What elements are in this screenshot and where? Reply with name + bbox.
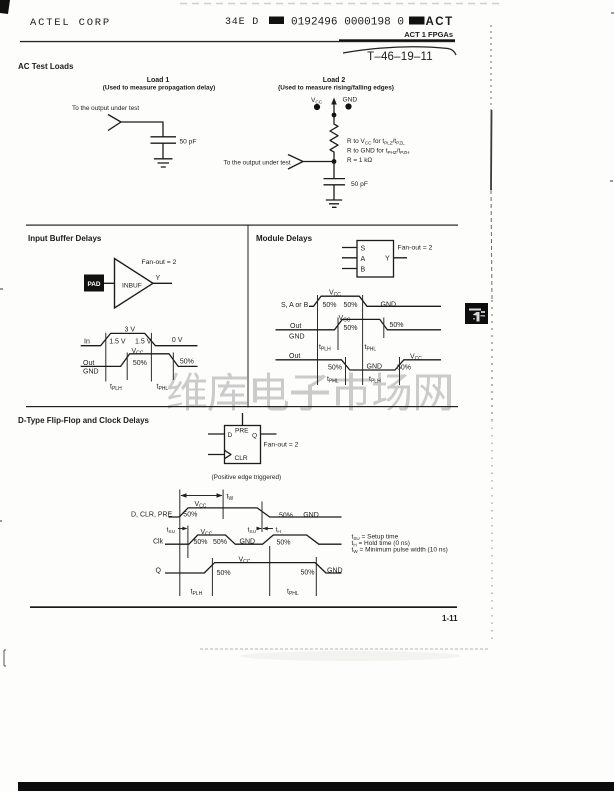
svg-text:50%: 50% — [133, 360, 147, 367]
svg-text:50%: 50% — [217, 570, 231, 577]
svg-text:50%: 50% — [279, 513, 293, 520]
svg-text:Out: Out — [289, 353, 300, 360]
svg-text:50%: 50% — [344, 325, 358, 332]
svg-text:34E D: 34E D — [225, 17, 259, 28]
svg-text:Y: Y — [156, 275, 161, 282]
svg-text:3 V: 3 V — [125, 327, 136, 334]
svg-text:Input Buffer Delays: Input Buffer Delays — [28, 234, 102, 243]
svg-text:50%: 50% — [344, 302, 358, 309]
svg-text:tPLH: tPLH — [319, 344, 331, 353]
svg-text:1-11: 1-11 — [442, 614, 458, 623]
svg-text:0192496 0000198 0: 0192496 0000198 0 — [291, 17, 404, 29]
svg-text:S, A or B: S, A or B — [281, 302, 309, 309]
svg-text:VCC: VCC — [239, 557, 251, 566]
svg-text:50%: 50% — [301, 570, 315, 577]
svg-text:T–46–19–11: T–46–19–11 — [367, 51, 433, 63]
svg-text:B: B — [361, 267, 366, 274]
svg-text:VCC: VCC — [311, 97, 323, 105]
svg-text:GND: GND — [367, 363, 383, 370]
svg-text:Y: Y — [385, 256, 390, 263]
svg-text:tPLH: tPLH — [110, 384, 122, 393]
svg-text:VCC: VCC — [132, 348, 144, 357]
svg-text:PRE: PRE — [235, 428, 249, 435]
svg-text:50%: 50% — [213, 539, 227, 546]
svg-text:50%: 50% — [194, 539, 208, 546]
svg-text:R to GND for tPHZ/tPZH: R to GND for tPHZ/tPZH — [347, 148, 409, 155]
svg-text:tPHL: tPHL — [365, 344, 377, 353]
svg-text:CLR: CLR — [235, 455, 248, 462]
svg-text:GND: GND — [303, 512, 319, 519]
svg-text:tSU: tSU — [248, 527, 257, 535]
svg-text:S: S — [361, 246, 366, 253]
svg-text:D: D — [228, 432, 233, 439]
svg-text:Q: Q — [252, 433, 257, 440]
svg-text:INBUF: INBUF — [122, 283, 142, 290]
svg-text:D-Type Flip-Flop and Clock Del: D-Type Flip-Flop and Clock Delays — [18, 416, 150, 425]
svg-text:(Used to measure propagation d: (Used to measure propagation delay) — [103, 85, 216, 92]
svg-text:R = 1 kΩ: R = 1 kΩ — [347, 157, 372, 164]
svg-text:Fan-out = 2: Fan-out = 2 — [264, 442, 299, 449]
svg-text:50%: 50% — [390, 322, 404, 329]
svg-text:50%: 50% — [328, 364, 342, 371]
svg-text:50%: 50% — [323, 302, 337, 309]
svg-text:Load 1: Load 1 — [147, 77, 170, 84]
svg-text:Clk: Clk — [153, 539, 164, 546]
svg-text:0 V: 0 V — [172, 337, 183, 344]
svg-text:(Positive edge triggered): (Positive edge triggered) — [212, 474, 282, 481]
svg-text:VCC: VCC — [201, 529, 213, 538]
svg-text:ACT 1 FPGAs: ACT 1 FPGAs — [404, 30, 453, 39]
svg-text:50 pF: 50 pF — [180, 139, 197, 146]
svg-text:PAD: PAD — [87, 281, 100, 288]
svg-text:Fan-out = 2: Fan-out = 2 — [398, 245, 433, 252]
svg-text:50%: 50% — [183, 512, 197, 519]
svg-text:tSU: tSU — [167, 527, 176, 535]
svg-text:R to VCC for tPLZ/tPZL: R to VCC for tPLZ/tPZL — [347, 138, 405, 145]
svg-text:GND: GND — [289, 334, 305, 341]
svg-text:1.5 V: 1.5 V — [135, 339, 152, 346]
svg-text:1.5 V: 1.5 V — [109, 339, 126, 346]
svg-text:50 pF: 50 pF — [351, 181, 368, 188]
svg-text:In: In — [84, 339, 90, 346]
svg-text:tPHL: tPHL — [287, 589, 299, 598]
svg-text:ACT: ACT — [426, 16, 454, 28]
svg-text:AC Test Loads: AC Test Loads — [18, 62, 74, 71]
svg-text:tPLH: tPLH — [191, 589, 203, 598]
svg-text:50%: 50% — [180, 359, 194, 366]
svg-text:Module Delays: Module Delays — [256, 234, 313, 243]
svg-text:GND: GND — [381, 301, 397, 308]
svg-text:tH: tH — [276, 527, 282, 535]
svg-text:A: A — [361, 256, 366, 263]
svg-text:ACTEL CORP: ACTEL CORP — [30, 17, 111, 29]
svg-text:Out: Out — [290, 323, 301, 330]
svg-text:GND: GND — [343, 97, 358, 104]
svg-text:To the output under test: To the output under test — [224, 160, 291, 167]
svg-text:VCC: VCC — [410, 353, 422, 362]
svg-text:D, CLR, PRE: D, CLR, PRE — [131, 512, 173, 519]
svg-text:Load 2: Load 2 — [323, 77, 346, 84]
svg-text:GND: GND — [327, 568, 343, 575]
svg-text:tW: tW — [227, 494, 234, 503]
svg-text:tPHL: tPHL — [157, 384, 169, 393]
svg-text:Fan-out = 2: Fan-out = 2 — [142, 259, 177, 266]
svg-text:Q: Q — [156, 568, 162, 575]
svg-text:GND: GND — [240, 539, 256, 546]
svg-text:(Used to measure rising/fallin: (Used to measure rising/falling edges) — [278, 85, 394, 92]
svg-text:tPHL: tPHL — [327, 376, 339, 385]
svg-text:50%: 50% — [277, 540, 291, 547]
svg-text:GND: GND — [83, 369, 99, 376]
svg-text:To the output under test: To the output under test — [72, 105, 139, 112]
svg-text:tW = Minimum pulse width (10 n: tW = Minimum pulse width (10 ns) — [352, 547, 448, 554]
